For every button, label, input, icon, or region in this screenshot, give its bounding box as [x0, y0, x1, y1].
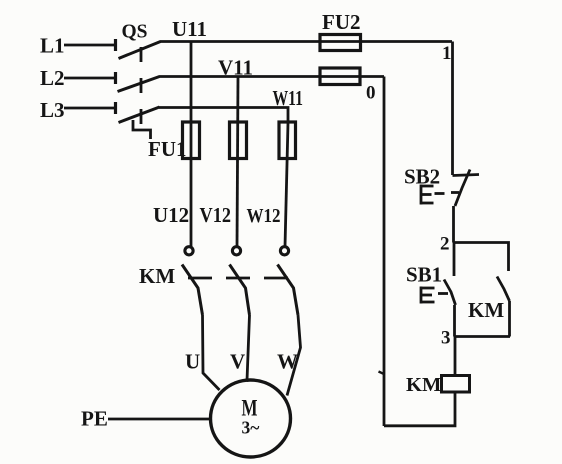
wire W11 vertical — [285, 123, 288, 247]
wire coil bottom return — [384, 392, 455, 426]
wire L2 stub — [64, 72, 116, 84]
wire blemish tick on node 0 line — [379, 372, 385, 375]
svg-text:3: 3 — [441, 328, 451, 349]
pushbutton SB2 operator E symbol — [420, 185, 434, 205]
svg-text:W12: W12 — [247, 205, 281, 227]
svg-text:L1: L1 — [40, 34, 65, 58]
wire KM aux contact to node 3 — [508, 301, 511, 337]
switch QS pole 2 blade — [118, 77, 160, 92]
wire SB1 to node 3 — [453, 305, 456, 337]
switch QS handle hook — [133, 120, 151, 139]
motor M circle — [211, 380, 291, 457]
wire L3 stub — [64, 102, 116, 114]
svg-text:V12: V12 — [200, 203, 232, 227]
svg-text:SB1: SB1 — [406, 263, 442, 287]
wire phase 3 bus — [159, 108, 288, 124]
svg-text:V11: V11 — [218, 56, 253, 80]
pushbutton SB1 operator dash link — [438, 292, 448, 295]
wire node 3 down to coil — [454, 337, 457, 376]
switch QS pole 3 blade — [119, 107, 160, 123]
wire control line from node 1 down to SB2 — [451, 42, 454, 176]
pushbutton SB2 operator dashed link — [435, 193, 460, 194]
fuse FU1 element 3 — [279, 122, 296, 159]
contactor KM main contact 3 terminal circle — [280, 247, 288, 255]
pushbutton SB2 movable blade — [455, 170, 470, 207]
wire control line node 0 vertical — [383, 77, 386, 427]
pushbutton SB1 movable blade — [444, 280, 456, 306]
fuse FU1 element 1 — [183, 122, 200, 159]
wire motor lead U — [203, 315, 220, 390]
contactor KM main contact 2 blade — [230, 265, 250, 316]
wire L1 stub — [64, 39, 116, 51]
contactor KM auxiliary contact blade — [497, 277, 510, 302]
wire node 3 branch — [455, 335, 511, 338]
svg-text:U11: U11 — [172, 17, 207, 41]
contactor KM main contacts dashed link — [188, 277, 289, 280]
svg-text:W: W — [277, 350, 298, 374]
pushbutton SB2 fixed contact bar — [453, 175, 480, 176]
switch QS mechanical link dashed line — [140, 47, 143, 125]
wire phase 1 bus (to FU2 and node 1) — [160, 40, 452, 43]
svg-text:L2: L2 — [40, 66, 65, 90]
svg-text:FU2: FU2 — [322, 10, 361, 34]
wire phase 2 bus (to FU2 and node 0) — [159, 75, 384, 78]
fuse FU2 element 1 — [320, 35, 361, 51]
svg-text:U: U — [185, 350, 200, 374]
fuse FU1 element 2 — [230, 122, 247, 159]
wire node 2 down to SB1 — [453, 243, 456, 277]
contactor KM main contact 3 blade — [278, 265, 299, 316]
svg-text:PE: PE — [81, 407, 108, 431]
svg-text:2: 2 — [440, 234, 450, 255]
svg-text:V: V — [230, 350, 245, 374]
wire PE — [108, 418, 211, 421]
wire U11 vertical — [190, 42, 193, 247]
svg-text:QS: QS — [122, 22, 148, 43]
svg-text:KM: KM — [139, 264, 175, 288]
contactor KM main contact 1 blade — [182, 265, 203, 316]
svg-text:0: 0 — [366, 83, 376, 104]
contactor KM main contact 2 terminal circle — [232, 247, 240, 255]
svg-text:FU1: FU1 — [148, 137, 187, 161]
svg-text:L3: L3 — [40, 98, 65, 122]
contactor KM main contact 1 terminal circle — [185, 247, 193, 255]
svg-text:U12: U12 — [153, 203, 189, 227]
svg-text:KM: KM — [468, 298, 504, 322]
fuse FU2 element 2 — [320, 68, 360, 85]
pushbutton SB1 operator E symbol — [420, 287, 435, 304]
svg-text:W11: W11 — [273, 86, 304, 110]
switch QS pole 1 blade — [119, 42, 161, 59]
contactor KM coil — [442, 376, 470, 393]
svg-text:3~: 3~ — [242, 418, 260, 438]
wire motor lead W — [287, 315, 301, 396]
wire SB2 to node 2 — [452, 206, 455, 243]
wire V11 vertical — [237, 77, 238, 247]
svg-text:1: 1 — [442, 43, 452, 64]
svg-text:KM: KM — [406, 374, 441, 396]
wire motor lead V — [247, 315, 250, 381]
wire node 2 branch to KM aux contact — [454, 243, 509, 272]
